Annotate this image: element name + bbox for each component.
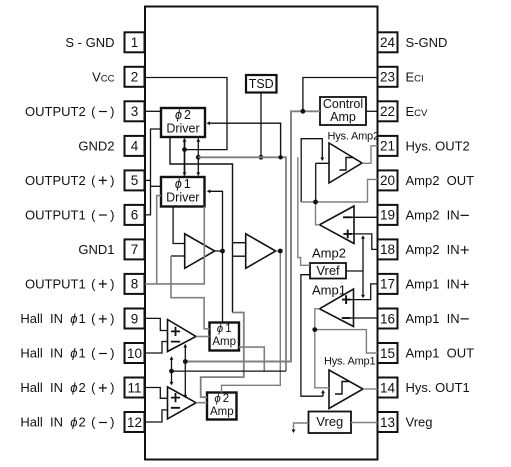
junction amp2 output node [313,200,318,205]
svg-text:Amp2 IN−: Amp2 IN− [406,206,470,225]
junction A2 output node [278,249,283,254]
pin 6 label OUTPUT1 (-) [25,207,115,225]
wire vref upper tap [298,157,310,265]
pin 11 box [125,378,145,398]
IC body outline [145,7,378,460]
amp2 plus sign [343,230,352,239]
svg-text:Amp1 IN+: Amp1 IN+ [406,275,470,294]
pin 10 box [125,343,145,363]
svg-text:15: 15 [380,346,395,361]
wire pin11 hall2 plus [145,388,168,399]
wire bus to phi2 driver arrow [208,123,281,157]
arrowhead into phi2 driver right [207,121,211,125]
wire phase bus horizontal [198,157,286,371]
pin 20 label Amp2 OUT [406,173,475,188]
arrowhead vref down arrow [361,295,365,299]
svg-text:5: 5 [131,173,139,188]
arrowhead hall link inner up [183,344,187,348]
arrowhead amp2 out to hys2 down [320,158,324,162]
svg-text:Amp: Amp [330,110,356,124]
arrowhead link B up [196,138,200,142]
wire vref lower tap to hys1 [301,275,323,397]
pin 14 box [378,378,398,398]
pin 5 label OUTPUT2 (+) [25,172,115,190]
svg-text:ϕ1: ϕ1 [175,177,191,191]
arrowhead hall link outer up [170,356,174,360]
arrowhead hall link inner down [183,395,187,399]
power amp A1 triangle [185,234,215,268]
wire amp2 out to hys2 [301,139,322,202]
pin 23 box [378,67,398,87]
wire hall1 output [196,336,210,338]
hysteresis symbol U6 [335,382,349,395]
svg-text:14: 14 [380,380,396,395]
junction link B dot [196,155,201,160]
amp1 plus sign [342,295,351,304]
pin 16 box [378,309,398,329]
pin 17 label Amp1 IN+ [406,275,470,294]
svg-text:Driver: Driver [166,191,199,205]
wire control loop [185,111,320,361]
wire amp2 output [301,179,377,224]
pin 21 label Hys. OUT2 [406,139,470,154]
svg-text:ϕ2: ϕ2 [175,108,191,122]
svg-text:9: 9 [131,311,139,326]
wire A1 output feedback [208,191,223,251]
svg-text:S-GND: S-GND [406,35,448,50]
wire driver link B [197,139,199,176]
arrowhead vref up arrow [361,235,365,239]
svg-text:12: 12 [127,415,142,430]
block phi1 Amp U7 [210,323,240,351]
wire TSD output [260,93,262,158]
pin 9 label Hall IN p1 (+) [20,310,114,328]
pin 13 label Vreg [406,415,433,430]
pin 3 box [125,101,145,121]
block phi1 Driver U4 [161,177,205,207]
svg-text:Amp: Amp [210,406,234,418]
svg-text:Control: Control [323,97,363,111]
svg-text:S - GND: S - GND [65,35,114,50]
wire A2 input loop to phi2 amp [201,313,244,398]
pin 2 box [125,67,145,87]
svg-text:8: 8 [131,277,139,292]
junction bus riser junction [278,155,282,159]
svg-text:Amp2 OUT: Amp2 OUT [406,173,475,188]
svg-text:TSD: TSD [249,77,274,91]
pin 5 box [125,170,145,190]
junction hall link inner dot [183,359,188,364]
wire A1 output down to phi1 amp [222,251,224,323]
pin 7 label GND1 [78,242,114,257]
svg-text:Vreg: Vreg [406,415,433,430]
svg-text:Hall IN ϕ2(+): Hall IN ϕ2(+) [20,379,114,397]
junction link A dot [182,147,187,152]
amp1 minus sign [342,317,350,319]
svg-text:2: 2 [131,70,139,85]
arrowhead into phi1 driver right [207,189,211,193]
svg-text:OUTPUT2(−): OUTPUT2(−) [25,103,115,121]
junction amp1 output node [312,327,317,332]
block phi2 Driver U3 [161,108,205,137]
pin 19 label Amp2 IN- [406,206,470,225]
label Hys. Amp1 [324,356,375,368]
svg-text:13: 13 [380,415,395,430]
pin 10 label Hall IN p1 (-) [20,345,114,363]
wire pin10 hall1 minus [145,342,168,354]
wire vref to amp inputs [346,238,363,297]
svg-text:23: 23 [380,70,395,85]
wire pin12 hall2 minus [145,410,168,422]
pin 1 label S - GND [65,35,114,50]
svg-text:Amp2 IN+: Amp2 IN+ [406,240,470,259]
wire amp2 plus pin18 [344,234,378,250]
arrowhead hall link outer down [170,382,174,386]
junction hall link outer dot [169,369,174,374]
wire phi1 amp output [239,347,264,371]
pin 22 box [378,101,398,121]
wire driver link A [184,139,186,176]
hysteresis symbol U5 [340,158,354,171]
junction A1 output node [220,249,225,254]
svg-text:Driver: Driver [166,122,199,136]
svg-text:OUTPUT1(−): OUTPUT1(−) [25,207,115,225]
pin 24 label S-GND [406,35,448,50]
svg-text:21: 21 [380,139,395,154]
svg-text:Vreg: Vreg [316,414,343,429]
svg-text:GND1: GND1 [78,242,114,257]
pin 8 label OUTPUT1 (+) [25,276,115,294]
svg-text:OUTPUT2(+): OUTPUT2(+) [25,172,115,190]
wire A2 upper input stub [233,242,246,244]
wire A2 lower input stub [233,255,246,257]
wire amp2 minus pin19 [343,216,378,218]
svg-text:24: 24 [380,35,396,50]
wire pin8 to phi1 driver [145,207,204,284]
wire hall2 output [196,402,207,404]
wire pin5 to vertical [145,179,151,181]
wire phi1 driver left input [151,185,162,187]
wire pin23 Eci [303,78,377,112]
svg-text:4: 4 [131,139,139,154]
block TSD U1 [246,75,277,93]
svg-text:6: 6 [131,208,139,223]
op amp Amp1 triangle [320,289,354,327]
pin 12 box [125,412,145,432]
svg-text:Amp1 IN−: Amp1 IN− [406,309,470,328]
block Control Amp U2 [320,97,366,125]
block Vreg U10 [309,412,352,434]
svg-text:Hall IN ϕ2(−): Hall IN ϕ2(−) [20,414,114,432]
pin 9 box [125,309,145,329]
svg-text:Hys. OUT2: Hys. OUT2 [406,139,470,154]
label Hys. Amp2 [328,131,379,143]
junction TSD junction [259,155,264,160]
wire pin9 hall1 plus [145,318,168,330]
pin 13 box [378,412,398,432]
wire amp1 minus pin16 [342,317,378,319]
arrowhead link A down [183,172,187,176]
block Vref U9 [310,263,346,279]
svg-text:7: 7 [131,242,139,257]
pin 18 box [378,239,398,259]
hall amp A3 triangle [168,320,197,352]
pin 7 box [125,239,145,259]
wire phi2 driver left loop [145,129,161,215]
wire hys2 input [316,163,329,202]
svg-text:19: 19 [380,208,395,223]
pin 14 label Hys. OUT1 [406,380,470,395]
wire amp1 plus pin17 [343,284,378,300]
svg-text:3: 3 [131,104,139,119]
svg-text:GND2: GND2 [78,139,114,154]
pin 20 box [378,170,398,190]
wire phi2 driver to A2 inputs [170,137,233,313]
hysteresis amp U5 triangle [329,143,362,183]
label Amp2 [312,246,346,261]
svg-text:Hys. Amp2: Hys. Amp2 [328,131,379,143]
svg-text:Hall IN ϕ1(+): Hall IN ϕ1(+) [20,310,114,328]
power amp A2 triangle [246,234,276,268]
svg-text:Amp1: Amp1 [312,283,346,298]
arrowhead link B down [196,172,200,176]
svg-text:11: 11 [127,380,141,395]
svg-text:1: 1 [131,35,139,50]
label Amp1 [312,283,346,298]
wire pin3 to phi2 driver [145,110,161,112]
svg-text:Amp: Amp [212,336,236,348]
pin 15 box [378,343,398,363]
wire pin22 Ecv [366,110,377,112]
pin 4 label GND2 [78,139,114,154]
pin 6 box [125,205,145,225]
op amp Amp2 triangle [320,206,355,244]
wire hall bus lower [172,370,287,372]
hall amp A3 plus minus [171,327,180,342]
pin 19 box [378,205,398,225]
wire hall link inner [184,345,186,398]
pin 1 box [125,32,145,52]
hall amp A4 plus minus [171,393,180,408]
pin 8 box [125,274,145,294]
pin 3 label OUTPUT2 (-) [25,103,115,121]
svg-text:Hys. OUT1: Hys. OUT1 [406,380,470,395]
pin 12 label Hall IN p2 (-) [20,414,114,432]
wire A1 upper input [173,207,185,244]
svg-text:Hys. Amp1: Hys. Amp1 [324,356,375,368]
wire hall link outer [171,358,173,385]
arrowhead into hys1 input [321,390,325,394]
svg-text:22: 22 [380,104,395,119]
hall amp A4 triangle [168,387,197,419]
pin 16 label Amp1 IN- [406,309,470,328]
pin 22 label Ecv [406,104,429,119]
block phi2 Amp U8 [207,393,237,420]
hysteresis amp U6 triangle [329,370,363,409]
wire A2 output down [222,251,281,393]
wire A1 lower input [171,255,185,257]
svg-text:Hall IN ϕ1(−): Hall IN ϕ1(−) [20,345,114,363]
wire pin8 branch to phi1 driver left [157,196,161,284]
pin 4 box [125,136,145,156]
pin 21 box [378,136,398,156]
pin 17 box [378,274,398,294]
junction Eci node [301,109,306,114]
svg-text:18: 18 [380,242,395,257]
svg-text:Vref: Vref [316,263,340,278]
wire vreg left arrow [294,423,309,431]
pin 23 label Eci [406,69,424,84]
svg-text:Amp2: Amp2 [312,246,346,261]
wire hys2 output to pin21 [362,146,378,164]
svg-text:16: 16 [380,311,395,326]
pin 15 label Amp1 OUT [406,346,475,361]
wire A1 lower input loop [171,256,210,329]
svg-text:Amp1 OUT: Amp1 OUT [406,346,475,361]
pin 18 label Amp2 IN+ [406,240,470,259]
arrowhead link A up [183,138,187,142]
pin 2 label Vcc [92,69,115,84]
svg-text:OUTPUT1(+): OUTPUT1(+) [25,276,115,294]
svg-text:17: 17 [380,277,395,292]
wire amp1 output [315,309,378,388]
wire pin2 Vcc to driver bus [145,78,227,150]
wire hys1 output pin14 [363,388,378,390]
pin 11 label Hall IN p2 (+) [20,379,114,397]
pin 24 box [378,32,398,52]
svg-text:10: 10 [127,346,142,361]
arrowhead vreg arrow down [292,430,296,434]
amp2 minus sign [343,216,351,218]
svg-text:20: 20 [380,173,395,188]
wire vreg right pin13 [351,422,378,424]
